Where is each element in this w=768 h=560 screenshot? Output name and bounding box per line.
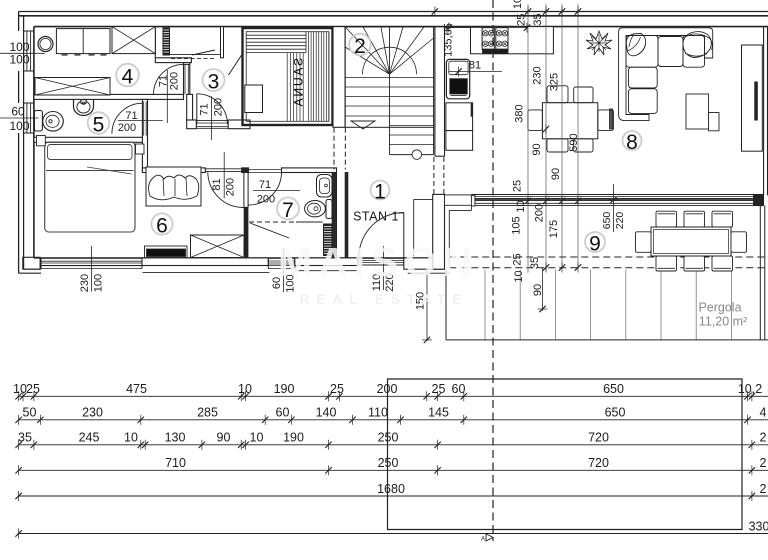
room 7 label xyxy=(277,198,299,220)
sauna mid planks xyxy=(286,53,288,122)
lower floor slab rectangle xyxy=(388,379,743,530)
svg-text:230: 230 xyxy=(531,66,543,84)
window W left upper (100/100) xyxy=(26,31,28,71)
room 9 label xyxy=(585,232,605,252)
sofa room6 xyxy=(146,167,201,206)
svg-text:10: 10 xyxy=(238,382,252,396)
svg-text:60: 60 xyxy=(276,406,290,420)
svg-text:710: 710 xyxy=(165,456,186,470)
window small (60/100) xyxy=(268,257,295,259)
door6 leaf xyxy=(196,94,198,125)
stairs column xyxy=(412,150,422,160)
ext line D xyxy=(577,4,579,268)
svg-text:10: 10 xyxy=(124,431,138,445)
svg-text:220: 220 xyxy=(614,212,626,230)
terrace chairs top xyxy=(656,211,677,227)
terrace dashed lines xyxy=(449,256,768,258)
entry door leaf top stub xyxy=(398,212,404,214)
room 3 label xyxy=(203,69,225,91)
wall: bottom band top face xyxy=(34,257,445,259)
svg-text:4: 4 xyxy=(760,406,767,420)
pergola slab xyxy=(445,270,447,340)
svg-text:175: 175 xyxy=(548,220,560,238)
svg-text:190: 190 xyxy=(274,382,295,396)
stairs right flight extension xyxy=(433,127,435,154)
chair bottom1 xyxy=(547,139,568,152)
entry door arc xyxy=(359,213,404,258)
kitchen counter top xyxy=(471,27,554,54)
svg-text:1: 1 xyxy=(374,181,386,204)
room 4 label xyxy=(116,64,139,87)
dashed opening below stairs xyxy=(433,157,435,194)
chair bottom2 xyxy=(574,139,593,152)
niche front edge xyxy=(169,54,221,56)
niche door diagonal xyxy=(192,50,215,55)
room 2 label xyxy=(349,34,371,56)
stairs down arrow xyxy=(351,121,375,129)
wall: top exterior band xyxy=(19,11,768,13)
door room4 jamb (V3) xyxy=(183,63,185,95)
sofa cushion top2 xyxy=(683,36,705,68)
svg-text:25: 25 xyxy=(26,382,40,396)
sauna door diagonal xyxy=(229,55,243,76)
svg-text:10: 10 xyxy=(250,431,264,445)
kitchen sink unit xyxy=(446,59,469,98)
svg-text:25: 25 xyxy=(516,14,528,26)
wall: left exterior xyxy=(18,12,20,32)
dining table kitchen xyxy=(542,103,597,139)
svg-text:200: 200 xyxy=(224,178,236,196)
svg-text:245: 245 xyxy=(79,431,100,445)
coffee table 2 xyxy=(709,113,720,131)
svg-text:6: 6 xyxy=(156,215,168,238)
closet diagonal xyxy=(250,223,289,238)
right wall xyxy=(763,27,765,196)
sofa pillow1 xyxy=(626,34,645,56)
plant xyxy=(586,31,612,55)
coffee table 1 xyxy=(686,94,709,129)
wall W5 with door6 opening xyxy=(187,120,197,129)
svg-text:25: 25 xyxy=(511,253,523,265)
svg-text:60: 60 xyxy=(11,105,25,119)
svg-text:2: 2 xyxy=(760,482,767,496)
toilet room5 xyxy=(34,111,42,132)
wall block right of entry xyxy=(404,258,445,269)
section marker A xyxy=(486,534,493,541)
svg-text:35: 35 xyxy=(529,257,541,269)
svg-text:4: 4 xyxy=(122,66,134,89)
svg-text:650: 650 xyxy=(603,382,624,396)
plant ring room4 xyxy=(38,37,53,52)
svg-text:SAUNA: SAUNA xyxy=(292,58,306,108)
sliding window band xyxy=(471,194,753,196)
svg-text:7: 7 xyxy=(282,199,294,222)
entry porch outline xyxy=(414,198,433,200)
closet slide dashed xyxy=(249,221,296,223)
sauna side planks xyxy=(308,32,310,122)
door5 swing arc xyxy=(112,103,143,134)
svg-text:81: 81 xyxy=(469,60,481,72)
svg-text:2: 2 xyxy=(760,456,767,470)
svg-text:650: 650 xyxy=(605,406,626,420)
svg-text:200: 200 xyxy=(534,204,546,222)
door room4 swing arc xyxy=(154,64,184,94)
wardrobe X room4 bottom xyxy=(35,78,110,96)
svg-text:720: 720 xyxy=(588,456,609,470)
ext line C xyxy=(561,4,563,268)
radiator room7 xyxy=(324,224,333,256)
bed xyxy=(45,142,135,232)
sofa cushion side1 xyxy=(629,67,658,88)
svg-text:190: 190 xyxy=(283,431,304,445)
terrace chairs bottom xyxy=(656,256,677,271)
sofa back L xyxy=(619,28,713,121)
chair left xyxy=(528,110,543,130)
wall niche (W4) xyxy=(155,58,191,63)
svg-text:STAN 1: STAN 1 xyxy=(353,210,399,224)
svg-text:35: 35 xyxy=(18,431,32,445)
svg-text:71: 71 xyxy=(259,179,271,191)
wall room6/room7 upper xyxy=(244,173,248,208)
terrace dining table xyxy=(651,227,731,256)
svg-text:3: 3 xyxy=(208,71,220,94)
svg-text:25: 25 xyxy=(330,382,344,396)
stair wall right (kitchen side) xyxy=(434,27,436,157)
bath right wall xyxy=(332,173,336,258)
svg-text:MAISON: MAISON xyxy=(278,239,478,285)
svg-text:REAL ESTATE: REAL ESTATE xyxy=(300,292,469,307)
sauna box xyxy=(243,28,333,125)
radiator room4 xyxy=(163,28,170,55)
vestibule east wall xyxy=(433,194,445,269)
room 1 label xyxy=(371,181,390,200)
svg-text:90: 90 xyxy=(531,143,543,155)
terrace step corner xyxy=(449,209,471,211)
wall niche right vertical (V5) xyxy=(221,27,224,58)
svg-text:590: 590 xyxy=(568,133,580,151)
entry door leaf xyxy=(403,213,405,258)
svg-text:100: 100 xyxy=(9,53,29,67)
nightstand right xyxy=(136,144,145,154)
stairs treads right xyxy=(390,77,434,79)
terrace right boundary xyxy=(759,206,761,340)
bench room6 xyxy=(145,246,188,258)
wall stub vestibule to window xyxy=(445,195,472,205)
room 5 label xyxy=(88,112,110,134)
sideboard bar xyxy=(610,109,613,129)
wall V2 with door5 xyxy=(142,99,147,172)
svg-text:100: 100 xyxy=(9,119,29,133)
door7 swing arc xyxy=(249,172,282,205)
svg-text:60: 60 xyxy=(452,382,466,396)
pergola rafters xyxy=(484,270,486,340)
sink room7 xyxy=(317,175,333,198)
wall sauna-right / stairs-left xyxy=(333,27,345,128)
ext line A xyxy=(527,4,529,273)
svg-text:90: 90 xyxy=(550,168,562,180)
dimension row lines xyxy=(19,395,768,397)
svg-text:35: 35 xyxy=(532,13,544,25)
dashed opening below sauna xyxy=(333,128,335,170)
window W left lower (60/100) xyxy=(26,103,28,133)
svg-text:325: 325 xyxy=(548,73,560,91)
svg-text:200: 200 xyxy=(212,98,224,116)
sofa cushion top1 xyxy=(658,37,683,67)
svg-text:105: 105 xyxy=(510,216,522,234)
svg-text:10: 10 xyxy=(513,270,525,282)
nightstand left xyxy=(37,136,46,146)
svg-text:50: 50 xyxy=(23,406,37,420)
vestibule left wall xyxy=(345,173,348,258)
svg-text:145: 145 xyxy=(428,406,449,420)
svg-text:2: 2 xyxy=(760,431,767,445)
toilet room7 xyxy=(326,200,332,219)
tv xyxy=(755,82,758,120)
svg-text:Pergola: Pergola xyxy=(698,301,741,315)
terrace chair left xyxy=(636,232,652,253)
entry door threshold (110/220) xyxy=(358,257,404,259)
svg-text:10: 10 xyxy=(512,0,524,9)
chair top1 xyxy=(547,86,568,103)
svg-text:230: 230 xyxy=(82,406,103,420)
svg-text:25: 25 xyxy=(511,180,523,192)
chair right xyxy=(598,110,614,130)
svg-text:720: 720 xyxy=(588,431,609,445)
svg-text:2: 2 xyxy=(354,35,366,58)
svg-text:11,20 m²: 11,20 m² xyxy=(699,315,747,329)
stairs treads left xyxy=(345,77,389,79)
svg-text:140: 140 xyxy=(316,406,337,420)
stairs divider xyxy=(389,27,391,155)
room 6 label xyxy=(151,213,172,234)
wardrobe X room4 top xyxy=(112,27,155,54)
svg-text:25: 25 xyxy=(432,382,446,396)
svg-text:9: 9 xyxy=(589,233,601,256)
wall block bedroom-bath xyxy=(142,258,268,266)
niche dashed line xyxy=(171,58,215,60)
svg-text:230: 230 xyxy=(79,274,91,292)
stairwell box xyxy=(345,27,434,127)
door6 swing arc xyxy=(197,94,228,125)
svg-text:8: 8 xyxy=(626,131,638,154)
svg-text:110: 110 xyxy=(368,406,388,420)
svg-text:10: 10 xyxy=(515,200,527,212)
room 8 label xyxy=(623,131,642,150)
svg-text:5: 5 xyxy=(93,114,105,137)
svg-text:90: 90 xyxy=(217,431,231,445)
stove xyxy=(482,28,494,50)
stairs winder arc xyxy=(363,47,417,74)
section line dashed xyxy=(492,0,494,541)
wall: bottom-left corner block xyxy=(23,257,40,269)
sofa cushion corner xyxy=(626,36,658,68)
wall block bath-entry xyxy=(295,258,358,266)
sink room5 xyxy=(74,99,94,115)
svg-text:200: 200 xyxy=(257,194,275,206)
svg-text:A: A xyxy=(481,537,485,543)
sofa cushion side2 xyxy=(629,89,658,114)
wardrobe X room6 xyxy=(191,235,245,258)
svg-text:285: 285 xyxy=(197,406,218,420)
wall V4 vertical xyxy=(187,94,193,120)
door81 swing arc xyxy=(208,172,244,208)
wall room5/room6 (W6) xyxy=(34,137,143,142)
svg-text:650: 650 xyxy=(601,212,613,230)
terrace chair right xyxy=(731,232,747,253)
dimension ticks xyxy=(15,393,21,399)
stairs winder fan xyxy=(345,47,389,74)
wall room4/room5 (W3) xyxy=(34,94,184,99)
svg-text:200: 200 xyxy=(168,72,180,90)
svg-text:10: 10 xyxy=(13,382,27,396)
wall W7 room6 top / bath top xyxy=(142,168,205,173)
sauna heater xyxy=(245,85,263,113)
window bedroom (230/100) xyxy=(41,257,142,259)
svg-text:475: 475 xyxy=(126,382,147,396)
sauna top bench xyxy=(246,34,306,36)
kitchen lower cabinets xyxy=(446,103,473,131)
svg-text:71: 71 xyxy=(198,103,210,115)
svg-text:380: 380 xyxy=(514,104,526,122)
ext line B xyxy=(545,4,547,271)
svg-text:1680: 1680 xyxy=(377,482,405,496)
wall room6/room7 lower (dark) xyxy=(244,207,248,257)
tv cabinet xyxy=(742,45,763,151)
desk room4 xyxy=(56,29,110,54)
svg-text:81: 81 xyxy=(211,178,223,190)
svg-text:200: 200 xyxy=(118,122,136,134)
wall niche left vertical xyxy=(154,27,156,58)
svg-text:330: 330 xyxy=(749,519,768,533)
svg-text:130: 130 xyxy=(165,431,186,445)
chair top2 xyxy=(574,87,593,103)
svg-text:100: 100 xyxy=(93,274,105,292)
sofa pillow2 xyxy=(683,32,711,58)
